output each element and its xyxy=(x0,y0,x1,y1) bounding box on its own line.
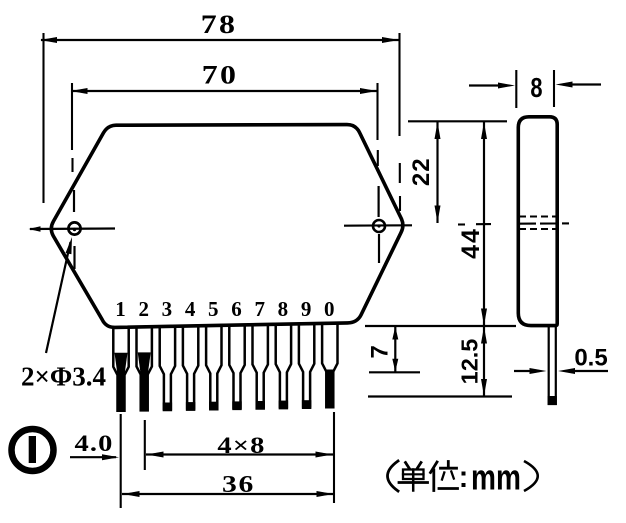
dim 8 extension line right xyxy=(553,70,555,107)
svg-text:5: 5 xyxy=(208,297,219,321)
svg-text:6: 6 xyxy=(231,297,242,321)
dim 0.5 arrows xyxy=(514,370,534,372)
svg-text:4×8: 4×8 xyxy=(217,432,265,458)
dim 4x8 dimension line xyxy=(146,453,333,455)
svg-text:7: 7 xyxy=(367,345,394,358)
pin lead 4 xyxy=(183,326,198,410)
dim 70 extension line right xyxy=(376,83,378,140)
circled pin-1 index symbol xyxy=(12,429,54,471)
svg-text:12.5: 12.5 xyxy=(457,339,483,385)
dim 7 dimension line xyxy=(394,326,396,372)
pin lead 5 xyxy=(206,325,221,409)
dim 8 value label xyxy=(530,72,542,103)
svg-text:78: 78 xyxy=(201,11,237,40)
pin tip reference line (12.5) xyxy=(368,395,512,397)
dim 4x8 value label xyxy=(217,432,265,458)
package body front-view hexagonal outline xyxy=(51,125,403,328)
pin lead 6 xyxy=(229,325,244,409)
svg-text:8: 8 xyxy=(278,297,289,321)
pin1 extension line xyxy=(120,414,122,508)
svg-text:70: 70 xyxy=(202,61,238,90)
svg-text:36: 36 xyxy=(222,471,255,498)
side view pin lead xyxy=(549,326,556,404)
svg-text:22: 22 xyxy=(408,157,435,186)
svg-text:4: 4 xyxy=(185,297,196,321)
pin lead 3 xyxy=(160,326,175,410)
svg-text:2: 2 xyxy=(138,297,149,321)
pin lead 2 xyxy=(137,327,152,411)
right hole vertical center line xyxy=(378,186,380,217)
dim 70 dimension line xyxy=(71,90,377,92)
dim 78 dimension line xyxy=(41,39,399,41)
dim 78 value label xyxy=(201,11,237,40)
dim 36 dimension line xyxy=(122,493,334,495)
pin lead 8 xyxy=(276,324,291,408)
svg-text:0.5: 0.5 xyxy=(574,345,607,372)
right hole horizontal center line (dash-dot to side view) xyxy=(344,224,412,226)
dim 4.0 leader arrow xyxy=(70,456,116,458)
mounting hole left xyxy=(68,222,80,234)
svg-text:mm: mm xyxy=(471,457,521,497)
package body side view outline xyxy=(518,117,557,326)
pin lead 10 xyxy=(322,324,337,408)
hole callout leader line with arrow xyxy=(46,242,71,353)
pin2 extension line xyxy=(144,420,146,470)
svg-text:8: 8 xyxy=(530,72,542,103)
svg-text:4.0: 4.0 xyxy=(74,430,113,456)
pin lead 1 xyxy=(113,327,128,411)
dim 4.0 value label xyxy=(74,430,113,456)
dim 12.5 arrows xyxy=(481,327,487,344)
svg-text:9: 9 xyxy=(301,297,312,321)
svg-text:1: 1 xyxy=(115,297,126,321)
mounting hole right xyxy=(373,220,385,232)
pin lead 9 xyxy=(299,324,314,408)
svg-text:3: 3 xyxy=(162,297,173,321)
units note "(unit: mm)" xyxy=(388,461,466,491)
side view hidden hole dashed lines xyxy=(519,216,556,218)
pin10 extension line xyxy=(333,412,335,503)
top reference line (body top level) xyxy=(408,120,507,122)
pin taper reference line (7) xyxy=(369,371,420,373)
svg-text:0: 0 xyxy=(324,297,335,321)
svg-text:2×Φ3.4: 2×Φ3.4 xyxy=(21,362,106,392)
body bottom reference line xyxy=(365,325,516,327)
dim 36 value label xyxy=(222,471,255,498)
dim 8 arrows xyxy=(469,84,502,86)
dim 78 extension line left xyxy=(42,33,44,203)
dim 8 extension line left xyxy=(515,70,517,108)
dim 44 dimension line xyxy=(483,122,485,397)
svg-text:7: 7 xyxy=(254,297,265,321)
left hole vertical center line xyxy=(73,190,75,212)
dim 78 extension line right xyxy=(398,33,400,136)
dim 22 dimension line xyxy=(436,122,438,224)
svg-text:44: 44 xyxy=(457,227,485,259)
dim 70 value label xyxy=(202,61,238,90)
dim 70 extension line left xyxy=(71,83,73,150)
left hole horizontal center line with end arrow xyxy=(30,227,115,230)
pin lead 7 xyxy=(253,325,268,409)
